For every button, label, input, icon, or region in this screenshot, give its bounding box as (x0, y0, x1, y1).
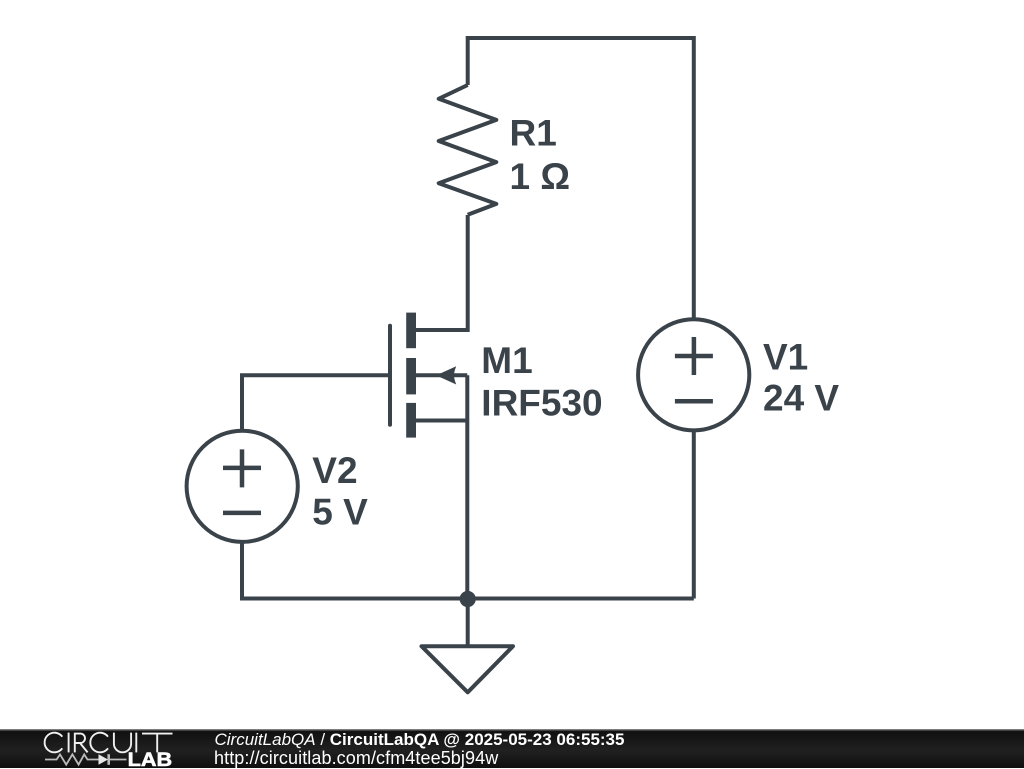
svg-text:LAB: LAB (128, 750, 173, 768)
